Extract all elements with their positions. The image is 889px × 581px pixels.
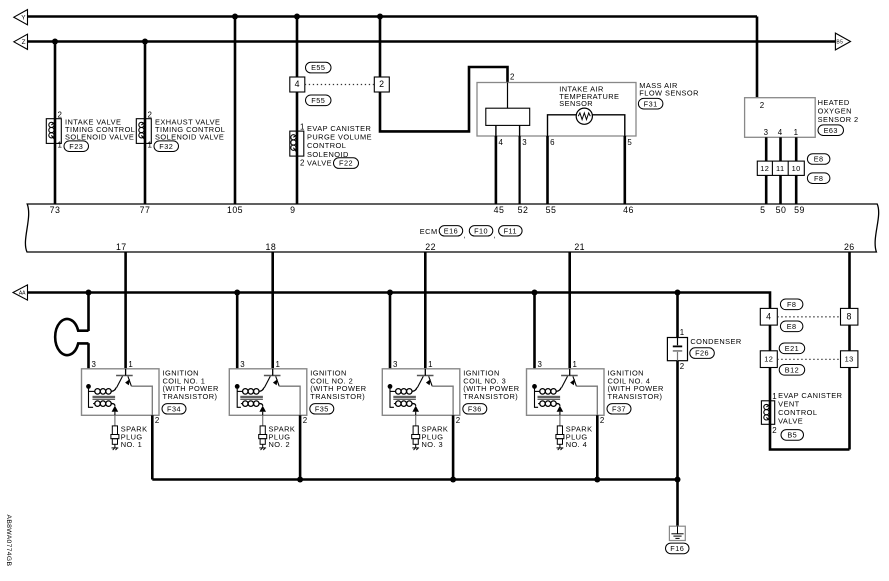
svg-text:52: 52	[518, 205, 529, 215]
coil 2 emitter wire to pin 2	[279, 386, 300, 415]
off-page arrow Z	[14, 34, 28, 49]
coil 4 primary winding	[540, 389, 546, 395]
node junction rail x597.3	[594, 477, 600, 483]
connector oval E21	[779, 343, 805, 354]
svg-text:F35: F35	[315, 404, 329, 413]
svg-text:26: 26	[844, 242, 855, 252]
svg-text:B12: B12	[785, 365, 799, 374]
svg-text:F8: F8	[787, 300, 796, 309]
connector box pin 8 (right column)	[841, 308, 858, 325]
wire bus AA to coil 2 pin 3	[236, 293, 239, 369]
svg-text:VALVE: VALVE	[307, 159, 332, 168]
svg-text:2: 2	[155, 416, 160, 425]
svg-text:E16: E16	[444, 226, 458, 235]
svg-text:SOLENOID VALVE: SOLENOID VALVE	[65, 132, 134, 141]
node junction rail x453.1	[450, 477, 456, 483]
svg-text:1: 1	[794, 128, 799, 137]
connector oval F36	[463, 404, 487, 414]
ignition coil no.4 box (F37)	[527, 369, 605, 416]
svg-text:F26: F26	[695, 349, 709, 358]
spark plug no.4	[559, 415, 561, 426]
coil 2 internal junction	[235, 384, 240, 389]
coil 3 internal left wire	[390, 386, 394, 407]
ground symbol box F16	[669, 526, 685, 540]
node junction bus Z x55	[52, 39, 58, 45]
coil 3 internal junction	[388, 384, 393, 389]
connector oval F11	[499, 226, 522, 236]
svg-text:F31: F31	[644, 99, 658, 108]
svg-text:1: 1	[276, 360, 281, 369]
MAF element legs to pins 4 and 3	[495, 125, 497, 136]
mass air flow sensor box F31	[477, 83, 636, 137]
connector oval E8 (right column)	[780, 321, 803, 332]
coil 1 emitter wire to pin 2	[131, 386, 152, 415]
node junction bus Z x145	[142, 39, 148, 45]
svg-text:F8: F8	[814, 174, 823, 183]
connector oval F31	[638, 98, 663, 109]
svg-text:77: 77	[140, 205, 151, 215]
coil 4 core	[538, 395, 561, 397]
svg-text:E55: E55	[311, 63, 325, 72]
coil 2 diode	[259, 406, 266, 412]
coil 4 internal junction	[532, 384, 537, 389]
connector oval F22	[334, 158, 359, 169]
svg-text:5: 5	[760, 205, 765, 215]
svg-text:18: 18	[266, 242, 277, 252]
svg-text:SOLENOID VALVE: SOLENOID VALVE	[155, 132, 224, 141]
svg-text:FLOW SENSOR: FLOW SENSOR	[639, 89, 699, 98]
solenoid valve F22 (EVAP canister purge volume control)	[290, 131, 304, 156]
wire MAF pin 4 to ECM 45	[495, 136, 498, 204]
svg-text:11: 11	[776, 164, 785, 173]
ignition coil no.1 box (F34)	[82, 369, 160, 416]
wire bus Z to ECM pin 73	[54, 42, 57, 205]
svg-text:4: 4	[499, 138, 504, 147]
connector box pin 13	[841, 351, 858, 368]
spark plug no.3	[415, 415, 417, 426]
connector oval F34	[162, 404, 186, 414]
connector oval E8 (top right)	[807, 154, 830, 165]
svg-text:TRANSISTOR): TRANSISTOR)	[310, 392, 365, 401]
svg-text:VALVE: VALVE	[778, 417, 803, 426]
wire bus AA to coil 4 pin 3	[533, 293, 536, 369]
wire bus Z (second supply)	[28, 40, 836, 43]
svg-text:2: 2	[680, 362, 685, 371]
svg-text:E63: E63	[824, 126, 838, 135]
connector oval F37	[607, 404, 631, 414]
svg-text:1: 1	[58, 141, 63, 150]
coil 2 secondary winding	[243, 401, 249, 407]
node junction bus Y x235	[232, 14, 238, 20]
svg-text:55: 55	[546, 205, 557, 215]
coil 1 internal left wire	[89, 386, 94, 407]
coil 3 primary winding	[396, 389, 402, 395]
node junction rail x300.1	[297, 477, 303, 483]
coil 1 power transistor	[116, 375, 133, 377]
wire bus Y to mass air flow sensor pin 2	[380, 17, 508, 132]
spark plug no.1	[114, 415, 116, 426]
svg-text:3: 3	[240, 360, 245, 369]
coil 4 diode	[557, 406, 564, 412]
connector oval F8 (top right)	[807, 173, 830, 184]
solenoid valve B5 (EVAP canister vent control)	[761, 401, 774, 425]
svg-text:6: 6	[550, 138, 555, 147]
svg-text:F10: F10	[474, 226, 488, 235]
off-page arrow B5 (right)	[835, 33, 850, 50]
dotted connector link E55-F55	[305, 84, 375, 86]
wire bus AA to condenser pin 1	[676, 293, 679, 338]
wire condenser pin 2 to rail	[676, 361, 679, 480]
coil 3 core	[393, 395, 416, 397]
svg-text:2: 2	[600, 416, 605, 425]
coil 1 primary winding	[95, 389, 101, 395]
svg-text:F23: F23	[69, 142, 83, 151]
svg-text:17: 17	[116, 242, 127, 252]
connector oval E16	[439, 226, 463, 236]
dotted connector link 4-8	[777, 316, 840, 318]
svg-text:46: 46	[623, 205, 634, 215]
svg-text:10: 10	[792, 164, 801, 173]
coil 1 core	[93, 395, 116, 397]
svg-text:21: 21	[574, 242, 585, 252]
svg-text:TRANSISTOR): TRANSISTOR)	[608, 392, 663, 401]
connector oval E55	[306, 62, 332, 73]
svg-text:B5: B5	[836, 39, 843, 45]
solenoid valve F23 (intake valve timing control)	[46, 119, 61, 144]
connector block 12 11 10 (E8/F8)	[757, 161, 804, 175]
svg-text:2: 2	[58, 110, 63, 119]
connector oval F10	[469, 226, 493, 236]
svg-text:2: 2	[300, 159, 305, 168]
svg-text:50: 50	[776, 205, 787, 215]
node junction bus AA x534.5	[532, 290, 538, 296]
wire ECM 26 down right column	[848, 252, 851, 450]
coil 3 power transistor	[417, 375, 434, 377]
svg-text:12: 12	[760, 164, 769, 173]
ignition coil no.2 box (F35)	[229, 369, 306, 416]
coil 2 core	[240, 395, 263, 397]
connector oval F23	[64, 141, 89, 152]
wire rail to ground F16	[676, 480, 679, 527]
svg-text:13: 13	[845, 355, 854, 364]
svg-text:3: 3	[764, 128, 769, 137]
coil 1 internal junction	[86, 384, 91, 389]
svg-text:B5: B5	[787, 430, 797, 439]
spark plug no.2	[262, 415, 264, 426]
svg-text:3: 3	[522, 138, 527, 147]
svg-text:59: 59	[794, 205, 805, 215]
svg-text:AB8WA0774GB: AB8WA0774GB	[5, 515, 12, 567]
connector oval F32	[154, 141, 179, 152]
svg-text:TRANSISTOR): TRANSISTOR)	[163, 392, 218, 401]
node junction bus Y x380	[377, 14, 383, 20]
coil 4 internal left wire	[535, 386, 539, 407]
svg-text:4: 4	[766, 311, 771, 321]
solenoid valve F32 (exhaust valve timing control)	[136, 119, 151, 144]
connector oval F8 (right column)	[780, 299, 803, 310]
svg-text:1: 1	[148, 141, 153, 150]
wire ECM 18 to coil 2 pin 1	[271, 252, 274, 369]
svg-text:,: ,	[464, 233, 466, 240]
svg-text:2: 2	[510, 73, 515, 82]
ECM band (E16)(F10)(F11)	[25, 204, 878, 252]
svg-text:73: 73	[50, 205, 61, 215]
coil 2 pin 2 wire	[299, 415, 302, 479]
svg-text:F32: F32	[159, 142, 173, 151]
wire HO2S pin 1 to ECM 59	[795, 137, 798, 161]
node junction rail x677.5	[675, 477, 681, 483]
svg-text:SENSOR: SENSOR	[559, 99, 593, 108]
coil 4 emitter wire to pin 2	[576, 386, 597, 415]
coil 2 primary winding	[243, 389, 249, 395]
wire HO2S pin 3 to ECM 5	[765, 137, 768, 161]
connector oval F55	[306, 95, 332, 106]
svg-text:,: ,	[494, 233, 496, 240]
svg-text:NO. 1: NO. 1	[121, 440, 143, 449]
wire bus Y (top supply)	[28, 15, 758, 18]
noise suppressor loop coil 1 feed	[55, 319, 88, 355]
svg-text:2: 2	[303, 416, 308, 425]
connector box pin 2 (E55/F55)	[374, 77, 389, 92]
heated oxygen sensor 2 box E63	[745, 98, 816, 138]
svg-text:4: 4	[778, 128, 783, 137]
svg-text:2: 2	[772, 426, 777, 435]
coil 2 power transistor	[264, 375, 281, 377]
svg-text:E8: E8	[814, 155, 824, 164]
svg-text:4: 4	[295, 79, 300, 89]
wire ECM 21 to coil 4 pin 1	[568, 252, 571, 369]
wire ECM 22 to coil 3 pin 1	[424, 252, 427, 369]
connector box pin 4 (right column)	[760, 308, 777, 325]
connector oval B5	[781, 430, 804, 441]
coil 4 power transistor	[561, 375, 578, 377]
connector box pin 4 (E55/F55)	[290, 77, 305, 92]
svg-text:3: 3	[393, 360, 398, 369]
svg-text:NO. 2: NO. 2	[269, 440, 291, 449]
svg-text:F36: F36	[468, 404, 482, 413]
connector oval F16	[666, 543, 690, 554]
ignition coil no.3 box (F36)	[382, 369, 460, 416]
svg-text:5: 5	[627, 138, 632, 147]
wire bus AA to coil 1 pin 3 (with loop)	[87, 293, 90, 332]
svg-text:F34: F34	[167, 404, 181, 413]
wire MAF pin 3 to ECM 52	[518, 136, 520, 204]
coil 3 emitter wire to pin 2	[432, 386, 453, 415]
coil 1 diode	[112, 406, 119, 412]
svg-text:105: 105	[227, 205, 243, 215]
svg-text:F22: F22	[339, 159, 353, 168]
intake air temperature sensor thermistor	[576, 108, 592, 124]
svg-text:1: 1	[680, 328, 685, 337]
svg-text:F37: F37	[612, 404, 626, 413]
connector oval B12	[779, 365, 805, 376]
node junction bus Y x297	[294, 14, 300, 20]
svg-text:3: 3	[538, 360, 543, 369]
svg-text:1: 1	[772, 392, 777, 401]
MAF internal element (hot wire)	[507, 83, 509, 109]
node junction bus AA x237.2	[234, 290, 240, 296]
svg-text:TRANSISTOR): TRANSISTOR)	[463, 392, 518, 401]
svg-text:1: 1	[300, 123, 305, 132]
svg-text:1: 1	[428, 360, 433, 369]
dotted connector link 12-13	[777, 358, 840, 360]
svg-text:45: 45	[494, 205, 505, 215]
connector oval F26	[690, 348, 715, 359]
svg-text:22: 22	[425, 242, 436, 252]
svg-text:2: 2	[379, 79, 384, 89]
coil 1 secondary winding	[95, 401, 101, 407]
svg-text:9: 9	[290, 205, 295, 215]
svg-text:E21: E21	[785, 344, 799, 353]
svg-text:1: 1	[128, 360, 133, 369]
svg-text:8: 8	[847, 311, 852, 321]
svg-text:F11: F11	[504, 226, 517, 235]
wire bus Z to ECM pin 77	[144, 42, 147, 205]
svg-text:E8: E8	[787, 322, 797, 331]
wire MAF pin 6 to ECM 55	[546, 136, 549, 204]
svg-text:Y: Y	[21, 15, 26, 22]
off-page arrow Y	[14, 10, 28, 25]
svg-text:1: 1	[573, 360, 578, 369]
wire ground rail	[152, 478, 677, 481]
connector oval F35	[310, 404, 334, 414]
svg-text:3: 3	[92, 360, 97, 369]
IAT sensor wiring pins 6 and 5	[548, 115, 577, 136]
wire bus AA to coil 3 pin 3	[389, 293, 392, 369]
svg-text:NO. 4: NO. 4	[566, 440, 588, 449]
wire MAF pin 5 to ECM 46	[623, 136, 626, 204]
wire ECM 17 to coil 1 pin 1	[124, 252, 127, 369]
svg-text:2: 2	[760, 101, 765, 110]
condenser F26	[667, 338, 687, 361]
coil 2 internal left wire	[237, 386, 241, 407]
svg-text:NO. 3: NO. 3	[422, 440, 444, 449]
coil 4 secondary winding	[540, 401, 546, 407]
svg-text:2: 2	[148, 110, 153, 119]
svg-text:Z: Z	[22, 39, 26, 46]
node junction bus AA x677.5 (condenser)	[675, 290, 681, 296]
svg-text:AA: AA	[19, 290, 26, 296]
svg-text:CONDENSER: CONDENSER	[690, 337, 741, 346]
wire bus AA (bottom, to EVAP vent valve)	[28, 293, 850, 450]
node junction bus AA x390	[387, 290, 393, 296]
connector oval E63	[818, 125, 844, 136]
svg-text:2: 2	[456, 416, 461, 425]
coil 1 pin 2 wire	[151, 415, 154, 479]
coil 3 pin 2 wire	[452, 415, 455, 479]
svg-text:F55: F55	[311, 96, 325, 105]
coil 3 secondary winding	[396, 401, 402, 407]
svg-text:F16: F16	[670, 544, 684, 553]
connector box pin 12	[760, 351, 777, 368]
off-page arrow AA	[13, 285, 28, 300]
wire bus Y to ECM pin 9 (through E55/F55 and purge solenoid)	[296, 17, 299, 205]
svg-text:ECM: ECM	[420, 227, 438, 236]
wire HO2S pin 4 to ECM 50	[779, 137, 782, 161]
coil 3 diode	[412, 406, 419, 412]
node junction bus AA x88.5	[86, 290, 92, 296]
svg-text:SENSOR 2: SENSOR 2	[818, 115, 859, 124]
wire bus Y to ECM pin 105	[234, 17, 237, 205]
svg-text:12: 12	[764, 355, 773, 364]
coil 4 pin 2 wire	[596, 415, 599, 479]
